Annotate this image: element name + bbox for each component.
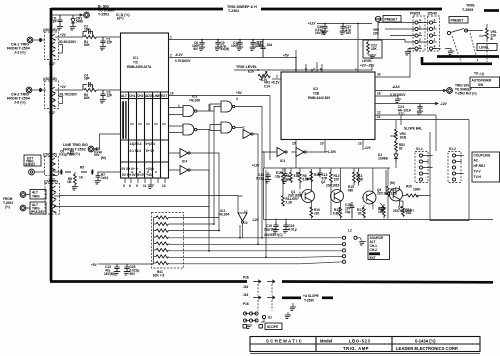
title block divider vertical 1 [315,337,317,352]
svg-text:20: 20 [377,73,381,77]
ground below slope row [292,303,294,307]
svg-text:S1-1: S1-1 [416,147,423,151]
transistor Q3 [363,191,376,204]
svg-text:10: 10 [170,92,174,96]
svg-text:P16: P16 [243,276,249,280]
svg-text:1: 1 [178,104,180,108]
label SCOPE boxed [265,323,282,330]
resistor R21 [402,206,405,217]
wire row1 to bundle [168,217,219,219]
svg-text:6V(M): 6V(M) [221,47,230,51]
ground under IC1 [148,185,154,188]
wire wafer ground [408,49,415,52]
svg-text:6: 6 [320,68,322,72]
svg-text:-AAX: -AAX [392,85,401,89]
capacitor C12 on pin1 run [237,40,243,51]
wire: thick top bus left segment [51,8,223,11]
wire row2 to bundle [168,223,214,225]
svg-text:1M: 1M [67,180,72,184]
svg-text:6.8K: 6.8K [333,212,340,216]
svg-text:(M): (M) [101,156,106,160]
svg-text:5: 5 [123,184,125,188]
svg-text:T/C: T/C [133,61,139,65]
svg-text:1: 1 [170,36,172,40]
wire row6 source CH-2 [168,250,342,252]
svg-text:+6.2V: +6.2V [259,78,268,82]
svg-text:EXT: EXT [370,256,376,260]
svg-text:1: 1 [419,25,421,29]
svg-text:18P: 18P [84,77,91,81]
label EXT TRIG INPUT [24,155,41,166]
svg-text:(2SC945): (2SC945) [43,153,57,157]
IC1 matrix internal bar 2 [125,101,126,139]
dashed linkage from S2 down [258,284,272,311]
svg-text:Model: Model [320,339,332,344]
resistor R14 [353,172,356,183]
node: junction CH-1 [39,38,42,42]
wire EXT input [34,171,45,173]
gate IC3-D NAND [221,122,235,133]
svg-text:E16: E16 [248,70,254,74]
capacitor C1 12P [100,37,105,46]
svg-text:3: 3 [236,97,238,101]
capacitor C7b to ground [96,172,101,180]
wire array2 out [55,90,83,104]
resistor R1 82K [84,35,96,38]
resistor network R41 dashed box [152,213,184,269]
svg-text:100P: 100P [231,44,239,48]
svg-text:9: 9 [136,184,138,188]
svg-text:1: 1 [355,68,357,72]
ground under C11 [57,27,63,30]
wires R41 left joins [154,218,157,264]
svg-text:13: 13 [162,184,166,188]
wire +1.25V drop to IC2 [262,140,325,169]
resistor R41-2 [156,222,168,225]
label SOURCE selector box [368,235,390,260]
svg-text:7: 7 [313,68,315,72]
svg-text:+5V: +5V [283,54,290,58]
svg-text:12: 12 [244,210,248,214]
svg-text:15A: 15A [267,43,274,47]
svg-text:6: 6 [129,184,131,188]
svg-text:0.22µ: 0.22µ [256,177,264,181]
wire +5V to array [98,263,154,265]
svg-text:LINE: LINE [153,94,160,98]
capacitor cluster C15/C16 bottom [273,222,279,233]
capacitor C9 [215,40,221,51]
svg-text:TRIG LEVEL: TRIG LEVEL [236,65,258,69]
wire: IC1 pin2 to IC2 [169,58,297,73]
svg-text:0.1 94.3: 0.1 94.3 [130,149,142,153]
wire C out to B in [197,104,221,111]
svg-text:LBO-523: LBO-523 [349,339,370,344]
wire: thick bottom bus left segment [50,280,247,283]
svg-text:16V(M): 16V(M) [315,31,325,35]
svg-text:2: 2 [419,38,421,42]
svg-text:EMM-3442-539: EMM-3442-539 [308,96,330,100]
inverter IC4-H lower left 2 [180,166,190,175]
svg-text:1KB: 1KB [400,136,407,140]
node S2 pivot [354,236,357,239]
node CH-2 TRIG input connector [26,87,32,93]
svg-text:+A SLOPE: +A SLOPE [303,294,319,298]
resistor R22 in level box [367,42,370,53]
wire row5 source CH-1 [168,243,342,245]
svg-text:T-2502 Ref (⅓): T-2502 Ref (⅓) [455,92,477,96]
svg-text:3: 3 [419,32,421,36]
svg-text:(⅔): (⅔) [5,205,10,209]
wires into wafers [378,23,429,43]
wire R41 left common [152,218,154,265]
resistor R8 [282,172,285,183]
capacitor C19 [350,202,355,219]
svg-text:82: 82 [358,212,362,216]
wire frame below coupling [430,120,469,221]
svg-text:CH-2: CH-2 [370,248,378,252]
svg-text:R5: R5 [80,166,84,170]
svg-text:10µ: 10µ [345,210,351,214]
ground under C1 [100,47,106,50]
svg-text:+12V: +12V [252,164,260,168]
transistor array TR1 (2SC945) dashed box [45,32,59,60]
svg-text:IC2: IC2 [313,87,318,91]
node PRE connector [375,16,380,21]
switch wafer W1 dashed [413,16,425,51]
svg-text:15A: 15A [406,211,413,215]
label PRESET small [383,16,401,23]
svg-text:TV-H: TV-H [474,175,482,179]
svg-text:TRIG: TRIG [32,195,40,199]
resistor R10 under Q1 [310,207,313,218]
wire array1 out [55,37,83,53]
wire: thick bottom bus right segment [282,280,493,283]
wire ALT line B long [54,206,209,208]
connector arrows row 2 [253,296,275,299]
svg-text:0.01µ: 0.01µ [59,153,67,157]
svg-text:(2SC945): (2SC945) [44,180,58,184]
svg-text:0-1434 (⅓): 0-1434 (⅓) [415,339,436,344]
svg-text:+2V~-28V: +2V~-28V [360,64,375,68]
title block outer [250,337,480,352]
wire -12V rail [264,219,431,221]
gate IC3-B NAND [221,101,235,112]
transistor array TR2 (2SC945) dashed box [45,81,59,109]
transistor TR4-c [52,200,55,206]
svg-text:-12V: -12V [364,146,372,150]
svg-text:82K: 82K [84,43,91,47]
svg-text:22K: 22K [373,32,380,36]
svg-text:680: 680 [348,189,354,193]
potentiometer VR3 [395,129,398,140]
svg-text:LEVEL: LEVEL [362,59,372,63]
svg-text:120: 120 [334,178,340,182]
svg-text:12: 12 [377,111,381,115]
gate IC3-A NAND [183,124,197,135]
switch lever S1-1 [447,31,450,34]
svg-text:0.7KΩ/DIV: 0.7KΩ/DIV [175,59,191,63]
node: junction dots on pin1 run [201,23,344,59]
svg-text:2SC1815: 2SC1815 [326,184,340,188]
wire: TRIG LEVEL line [234,66,372,72]
svg-text:+12V: +12V [308,22,316,26]
svg-text:11: 11 [143,184,147,188]
diode D1 [394,152,398,162]
svg-text:1: 1 [243,126,245,130]
svg-text:ALT: ALT [121,94,127,98]
svg-text:22P: 22P [257,44,264,48]
svg-text:4: 4 [419,19,421,23]
svg-text:5: 5 [305,68,307,72]
svg-text:50.3KΩ/DIV: 50.3KΩ/DIV [59,40,77,44]
svg-text:µ(⅓): µ(⅓) [117,16,124,20]
resistor R13 under Q2 [339,207,342,218]
resistor R16 [357,172,360,183]
svg-text:74LS00: 74LS00 [189,99,200,103]
svg-text:CH2: CH2 [137,94,144,98]
op-amp/IC block U2: IC2 outer rectangle [281,72,375,140]
svg-text:82: 82 [399,147,403,151]
node: junction CH-2 [39,88,42,92]
svg-text:FROM T-2502: FROM T-2502 [63,148,86,152]
svg-text:+2V: +2V [60,33,67,37]
svg-text:11: 11 [377,115,381,119]
ground under array3 [51,176,53,180]
wire CH-2 input [32,89,46,91]
svg-text:(2SC945): (2SC945) [43,77,57,81]
svg-text:R1B: R1B [314,173,321,177]
svg-text:+5V: +5V [236,91,243,95]
svg-text:5: 5 [419,45,421,49]
capacitor C15 22P between runs [260,40,265,58]
diode CR1 5480 [71,15,75,26]
resistor R20 [406,194,418,197]
resistor R18 under Q3 [363,207,366,218]
wire A out to D in [197,125,221,131]
transistor TR4-a [52,186,55,192]
svg-text:22µ/16V: 22µ/16V [264,228,277,232]
op-amp/IC block U1: IC1 outer rectangle [121,33,169,178]
svg-text:51K: 51K [305,177,312,181]
wire row3 [168,230,219,233]
small square pads [243,325,247,329]
capacitor C7 [91,170,94,175]
gate IC3-C NAND [183,106,197,117]
svg-text:14(2)0.4: 14(2)0.4 [130,142,142,146]
svg-text:22K: 22K [371,47,378,51]
wire: thick top bus right segment [261,8,442,11]
wire thick switch linkage upper [422,57,499,64]
ground under CR1 [70,27,76,30]
inverter IC4-G lower left [180,149,190,158]
svg-text:15: 15 [292,142,296,146]
connector cluster S1 bottom [245,314,257,321]
trimmer VR5 on trig level line [257,69,259,71]
electrolytic E1P [283,168,288,179]
ground right of wafer2 [433,49,451,52]
svg-text:(PULSE): (PULSE) [31,210,44,214]
svg-text:ADD: ADD [145,94,153,98]
wire IC2 right pin -12V arrow [375,102,438,104]
resistor R41-8 [156,261,168,264]
transistor Q2 [331,190,344,203]
svg-text:62K × 8: 62K × 8 [153,274,164,278]
title block divider vertical 2 [391,337,393,352]
transistor Q1 [302,190,315,203]
node: B SIG TO H AMP connector [52,14,83,16]
wire ALT line A long [54,195,238,198]
svg-text:(M): (M) [390,181,395,185]
svg-text:74LS04: 74LS04 [218,213,229,217]
svg-text:T-2302: T-2302 [228,9,239,13]
wire thick switch linkage lower [421,62,492,65]
svg-text:TO △g: TO △g [474,72,484,76]
resistor R1B [310,171,313,182]
svg-text:CH1: CH1 [129,94,136,98]
svg-text:R9: R9 [296,172,300,176]
ground under C3 [100,100,106,103]
capacitor C25 0.022u [124,264,130,275]
svg-text:+5V: +5V [91,263,98,267]
transistor TR2-a [52,87,55,93]
svg-text:J25/45: J25/45 [427,12,437,16]
wire S2 to ground [357,238,362,241]
capacitor C24 [417,104,423,115]
inverter IC4-E [243,130,253,139]
svg-text:HF-REJ: HF-REJ [474,164,486,168]
resistor R12 [330,172,333,183]
ground right of scope [287,312,289,315]
label PRESET boxed [449,17,468,24]
svg-text:0+ 0+: 0+ 0+ [146,149,154,153]
svg-text:100K: 100K [413,188,421,192]
ground cluster bottom [246,325,252,328]
wire: thick left vertical bus [50,8,53,281]
transistor TR3-c [52,170,55,176]
svg-text:10µ: 10µ [275,175,281,179]
capacitor C18 mid [318,168,323,178]
svg-text:T2B: T2B [313,92,320,96]
svg-text:COUPLING: COUPLING [474,154,491,158]
svg-text:10: 10 [244,221,248,225]
capacitor C6 [60,170,63,175]
dashed linkage drops [452,33,487,62]
wire: +5V rail to gates [169,96,271,161]
wire +12V rail [264,167,391,169]
ground under Q3 [380,203,383,208]
svg-text:2: 2 [170,54,172,58]
svg-text:P16: P16 [243,302,249,306]
IC1 bottom pin stubs [125,178,165,185]
IC2 bottom pin stubs [296,140,363,169]
svg-text:16: 16 [377,92,381,96]
capacitor C17 on pin1 run [250,40,256,51]
wire D/E out down [253,134,258,152]
resistor R52 [395,141,398,152]
svg-text:P08/25: P08/25 [410,12,420,16]
label COUPLING boxed list [472,152,500,182]
IC1 matrix cell marks row 1 [130,123,166,125]
svg-text:16V: 16V [346,31,353,35]
svg-text:0+(2)4: 0+(2)4 [146,142,156,146]
wire row7 source LINE [168,256,342,257]
svg-text:5480: 5480 [76,20,83,24]
svg-text:IC4: IC4 [182,160,187,164]
svg-text:+1.25V: +1.25V [326,150,337,154]
ground under array2 [51,109,53,113]
title block lower shadow line [250,353,480,355]
resistor R2 82K [84,88,96,91]
potentiometer VR1 [486,28,489,39]
wire to C3 and IC1 [96,89,120,91]
svg-text:1: 1 [434,25,436,29]
capacitor C3 12P [100,90,105,99]
resistor R19 [387,186,390,197]
svg-text:C14: C14 [264,85,270,89]
svg-text:TRIG: TRIG [466,4,475,8]
svg-text:4: 4 [434,45,436,49]
switch wafer W2 dashed [428,16,440,51]
svg-text:LINE TRIG SIG: LINE TRIG SIG [63,143,88,147]
transistor TR3-b [52,164,55,170]
wire LINE TRIG to IC1 pin [94,134,121,150]
wire to C1 and IC1 pin1 [96,36,120,38]
svg-text:PRE: PRE [376,18,383,22]
svg-text:22P: 22P [51,20,58,24]
wire CH-1 input to array [33,39,45,41]
IC2 top pin stubs [306,62,322,72]
svg-text:T-2502: T-2502 [98,13,109,17]
svg-text:0.01µ: 0.01µ [289,228,297,232]
resistor R7B [290,172,293,183]
LEVEL network box [363,40,382,58]
svg-text:SCHEMATIC: SCHEMATIC [266,339,303,344]
svg-text:12P: 12P [107,41,114,45]
wire: +1.25V line with inverters [262,151,327,153]
IC1 matrix junction dots [131,171,133,173]
svg-text:2.2K: 2.2K [286,201,293,205]
svg-text:Q2: Q2 [321,180,325,184]
svg-text:12P: 12P [107,94,114,98]
wire EXT chain to IC1 [53,171,121,173]
resistor R7 1M vertical [74,174,77,185]
svg-text:1S06B: 1S06B [378,157,388,161]
transistor array TR4 (2SC945) dashed box [45,184,60,215]
svg-text:J16: J16 [243,285,249,289]
label AUTO/NORM SW boxed [470,77,500,88]
transistor array TR3 (2SC945) dashed box [45,157,59,176]
svg-text:J16: J16 [243,293,249,297]
wire IC2 pin20 run right and up [375,47,410,77]
svg-text:LEVEL: LEVEL [479,46,489,50]
svg-text:13: 13 [358,142,362,146]
svg-text:6: 6 [434,19,436,23]
ground under array1 [51,60,53,64]
resistor R6 [81,171,87,173]
connector arrows row 1 [253,280,275,283]
wire row4 source ALT [168,237,342,239]
svg-text:PRESET: PRESET [451,19,464,23]
transistor Q4 [390,188,403,201]
svg-text:+2V: +2V [60,85,67,89]
svg-text:1e04: 1e04 [101,176,108,180]
wire vertical drops to rows [209,128,266,257]
transistor TR2-c [52,101,55,107]
svg-text:R20: R20 [406,185,412,189]
svg-text:T-2530: T-2530 [304,299,314,303]
svg-text:+(3)0·: +(3)0· [146,167,155,171]
svg-text:J-8 (⅔): J-8 (⅔) [14,101,26,105]
